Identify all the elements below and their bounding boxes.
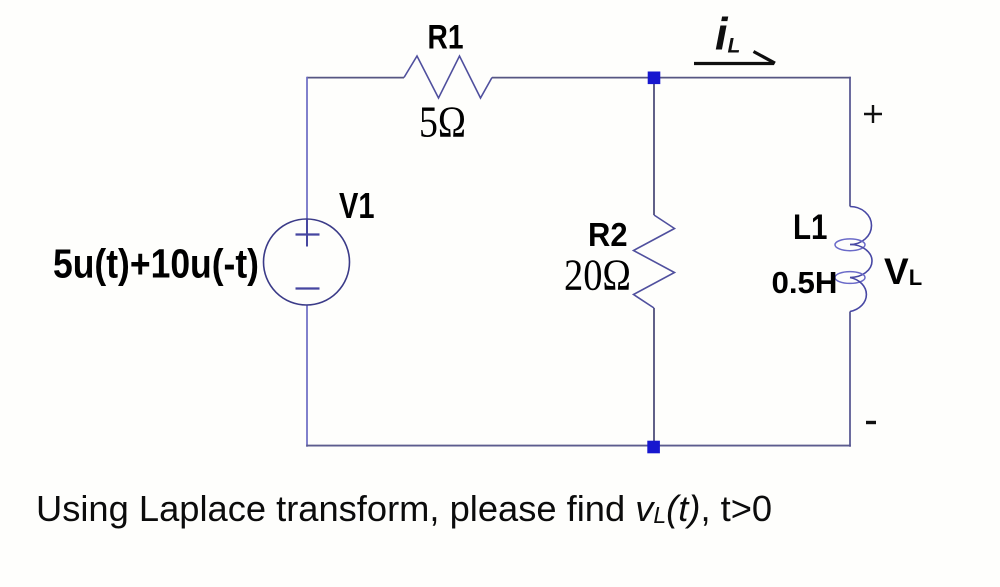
inductor L1 arc 3 [850, 278, 866, 312]
svg-text:0.5H: 0.5H [772, 265, 838, 300]
wire middle vertical upper [653, 78, 655, 216]
resistor R1 [404, 56, 492, 98]
wire middle vertical lower [653, 308, 655, 446]
node junction top [648, 72, 661, 85]
svg-text:R2: R2 [588, 216, 628, 253]
current arrow iL line [694, 62, 774, 65]
current arrow iL barb [754, 52, 776, 64]
plus polarity mark [864, 113, 882, 115]
V1 minus bar [296, 287, 320, 289]
V1 plus crossbar [296, 233, 320, 235]
svg-text:20Ω: 20Ω [564, 251, 631, 300]
svg-text:R1: R1 [428, 19, 464, 57]
node junction bottom [647, 441, 660, 454]
wire right vertical upper [849, 77, 851, 207]
svg-text:L1: L1 [793, 208, 828, 247]
svg-text:5u(t)+10u(-t): 5u(t)+10u(-t) [53, 241, 259, 287]
inductor L1 arc 2 [850, 245, 872, 278]
inductor L1 loop ellipse 2 [835, 272, 865, 284]
inductor L1 arc 1 [850, 207, 872, 245]
wire top-right horizontal [492, 77, 851, 79]
wire left vertical lower [306, 305, 308, 447]
minus polarity mark [866, 421, 876, 424]
svg-text:5Ω: 5Ω [419, 98, 466, 147]
resistor R2 [634, 215, 675, 308]
wire bottom horizontal [306, 445, 851, 447]
voltage source V1 circle [264, 219, 350, 305]
wire top-left horizontal [307, 77, 404, 79]
wire left vertical upper [306, 77, 308, 220]
inductor L1 loop ellipse 1 [835, 239, 865, 251]
wire right vertical lower [849, 312, 851, 447]
V1 plus stub [306, 220, 308, 247]
svg-text:V1: V1 [339, 185, 375, 226]
